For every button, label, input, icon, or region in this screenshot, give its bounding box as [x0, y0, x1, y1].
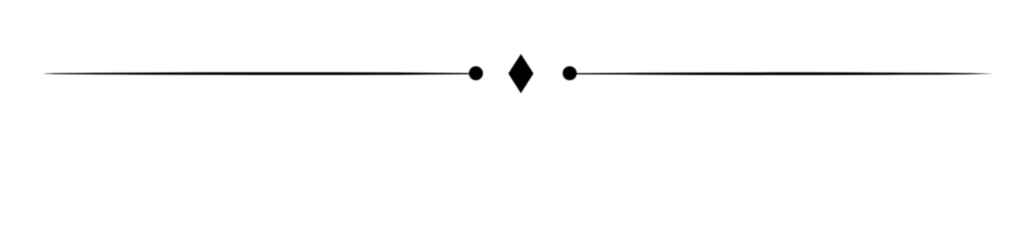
left flourish line — [44, 72, 470, 75]
right flourish line — [576, 72, 992, 75]
ornamental divider — [0, 0, 1024, 150]
right dot — [563, 66, 577, 80]
center diamond — [508, 54, 533, 93]
left dot — [469, 66, 483, 80]
